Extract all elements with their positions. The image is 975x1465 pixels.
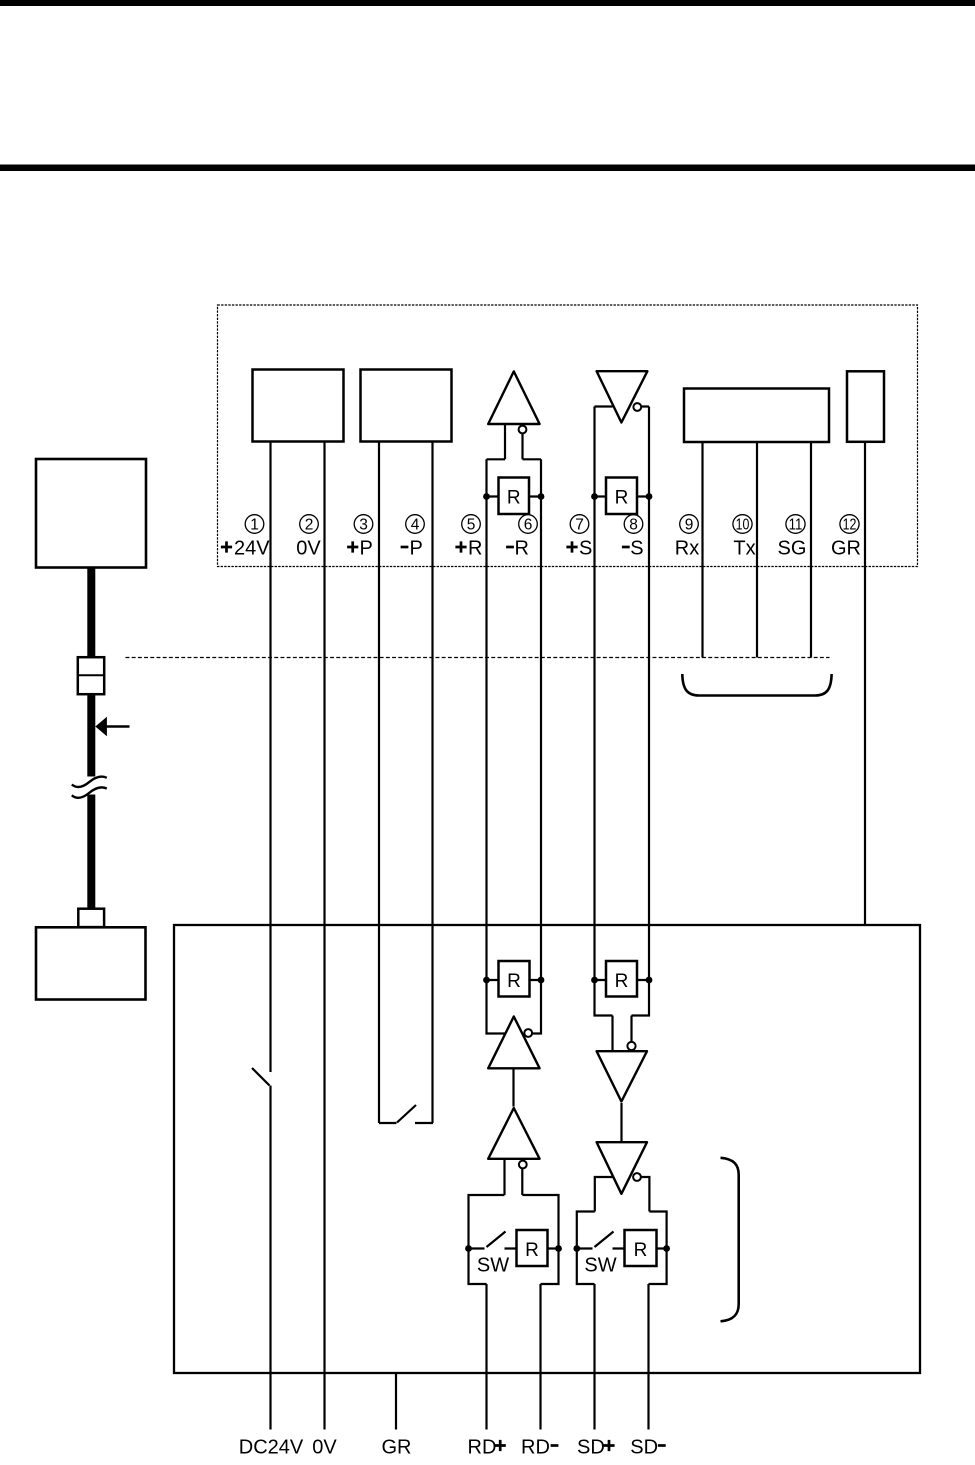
cable break squiggle xyxy=(72,777,107,787)
wire pin6 -R xyxy=(532,459,542,1033)
svg-text:1: 1 xyxy=(250,517,259,534)
svg-text:SG: SG xyxy=(778,538,807,560)
wire pin12 GR xyxy=(864,442,866,925)
svg-text:5: 5 xyxy=(467,517,476,534)
connections from driver 2 into SW network xyxy=(595,1177,650,1212)
svg-text:Tx: Tx xyxy=(733,538,755,560)
terminating resistor wire (lower R channel) xyxy=(487,979,542,981)
GR lead at I/O unit bottom xyxy=(395,1373,397,1430)
cable segment 3 xyxy=(87,795,95,910)
bubble on line driver 2 xyxy=(633,1173,641,1181)
wire between buffer 1 and buffer 2 (R channel) xyxy=(512,1070,514,1107)
wire pin2 0V xyxy=(323,442,325,1430)
wire pin10 Tx xyxy=(756,442,758,658)
cable connector xyxy=(78,657,104,694)
junction dots upper S channel xyxy=(591,493,598,500)
wire pin9 Rx xyxy=(701,442,703,658)
SW resistor box (R channel) xyxy=(517,1230,548,1266)
pin label +R xyxy=(455,538,482,560)
pin number 6 xyxy=(519,515,538,534)
cable segment 1 xyxy=(87,568,95,658)
junction dots lower R channel xyxy=(483,977,490,984)
pin label +P xyxy=(347,538,373,560)
RD- lead xyxy=(539,1284,541,1430)
junction dots upper R channel xyxy=(483,493,490,500)
terminating resistor R box (upper S channel) xyxy=(606,478,637,515)
junction dots SW network (S channel) xyxy=(573,1245,580,1252)
receiver buffer (upper, +R/-R) xyxy=(488,371,539,424)
svg-text:9: 9 xyxy=(685,517,694,534)
wire pin8 -S xyxy=(632,407,650,1043)
lower cable connector xyxy=(78,909,104,927)
wire pin11 SG xyxy=(810,442,812,658)
svg-text:0V: 0V xyxy=(312,1436,337,1458)
grouping bracket (I/O unit right) xyxy=(721,1158,739,1322)
terminating resistor R box (lower S channel) xyxy=(606,961,637,997)
wire pin3 +P xyxy=(379,442,397,1124)
bubble of line driver xyxy=(633,403,641,411)
pin number 5 xyxy=(462,515,481,534)
SW resistor box (S channel) xyxy=(625,1230,657,1266)
terminal label RD+ xyxy=(468,1436,506,1458)
SD+ lead xyxy=(593,1284,595,1430)
external device box (upper) xyxy=(36,459,146,568)
svg-text:Rx: Rx xyxy=(675,538,699,560)
SD- lead xyxy=(647,1284,649,1430)
pin number 12 xyxy=(840,515,859,534)
switch between +P and -P xyxy=(397,1105,416,1123)
svg-text:12: 12 xyxy=(843,516,857,533)
svg-text:R: R xyxy=(507,971,521,992)
svg-text:DC24V: DC24V xyxy=(239,1436,304,1458)
pin number 8 xyxy=(624,515,643,534)
line driver (upper, +S/-S) xyxy=(597,371,648,422)
terminating resistor R (upper R channel) wire xyxy=(487,495,542,497)
pin number 11 xyxy=(786,515,805,534)
SW switch (R channel) xyxy=(469,1232,559,1249)
stems under receiver buffer xyxy=(487,424,542,459)
wire pin5 +R xyxy=(487,459,505,1033)
bubble on receiver buffer 2 xyxy=(519,1161,527,1169)
bubble on receiver buffer 1 xyxy=(524,1029,532,1037)
dashed signal-ground line xyxy=(126,657,830,659)
svg-text:S: S xyxy=(579,538,592,560)
header rule top xyxy=(0,0,975,6)
svg-text:SW: SW xyxy=(477,1255,509,1277)
header rule bottom xyxy=(0,165,975,172)
wire pin1 +24V xyxy=(269,442,271,1073)
pin number 1 xyxy=(245,515,264,534)
svg-text:S: S xyxy=(630,538,643,560)
arrow pointing to cable xyxy=(106,725,130,728)
SW network outer box (S channel) xyxy=(577,1212,667,1285)
pin label +S xyxy=(566,538,592,560)
module box pins 3-4 xyxy=(361,370,452,442)
svg-text:RD: RD xyxy=(468,1436,497,1458)
pin number 4 xyxy=(406,515,425,534)
svg-text:SD: SD xyxy=(630,1436,658,1458)
svg-text:7: 7 xyxy=(575,517,584,534)
svg-text:R: R xyxy=(634,1240,648,1261)
terminating resistor R box (upper R channel) xyxy=(499,478,530,515)
svg-text:P: P xyxy=(410,538,423,560)
terminal label SD- xyxy=(630,1436,665,1458)
RD+ lead xyxy=(485,1284,487,1430)
pin label -P xyxy=(401,538,423,560)
svg-text:R: R xyxy=(525,1240,539,1261)
pin label -R xyxy=(506,538,529,560)
wire between driver 1 and driver 2 (S channel) xyxy=(620,1103,622,1141)
line driver 1 (I/O unit, S channel) xyxy=(597,1051,647,1101)
svg-text:R: R xyxy=(615,488,629,509)
pin number 10 xyxy=(733,515,752,534)
wire pin4 -P xyxy=(415,442,433,1124)
terminal label RD- xyxy=(521,1436,558,1458)
svg-text:RD: RD xyxy=(521,1436,550,1458)
svg-text:0V: 0V xyxy=(296,538,321,560)
wire pin7 +S xyxy=(595,407,613,1052)
svg-text:10: 10 xyxy=(736,516,750,533)
interface IC box pins 9-11 xyxy=(684,389,829,443)
terminating resistor wire (lower S channel) xyxy=(595,979,650,981)
pin label -S xyxy=(622,538,644,560)
svg-text:4: 4 xyxy=(411,517,420,534)
module box pins 1-2 xyxy=(253,370,344,442)
frame ground box pin 12 xyxy=(847,371,884,442)
pin number 9 xyxy=(680,515,699,534)
svg-text:R: R xyxy=(468,538,482,560)
svg-text:6: 6 xyxy=(524,517,533,534)
line driver 2 (I/O unit, S channel) xyxy=(597,1142,647,1194)
svg-text:GR: GR xyxy=(831,538,861,560)
cable segment 2 xyxy=(87,694,95,777)
SW switch (S channel) xyxy=(577,1232,667,1249)
driver input connections xyxy=(595,405,650,407)
svg-text:24V: 24V xyxy=(234,538,270,560)
terminating resistor R (upper S channel) wire xyxy=(595,495,650,497)
svg-text:R: R xyxy=(615,971,629,992)
svg-text:3: 3 xyxy=(359,517,368,534)
svg-text:8: 8 xyxy=(629,517,638,534)
pin number 3 xyxy=(354,515,373,534)
Rx/Tx/SG grouping bracket xyxy=(682,674,831,696)
receiver buffer 2 (I/O unit, R channel) xyxy=(488,1108,539,1159)
pin number 7 xyxy=(570,515,589,534)
terminating resistor R box (lower R channel) xyxy=(499,961,530,997)
svg-text:11: 11 xyxy=(789,516,803,533)
dashed enclosure (control unit side) xyxy=(218,305,918,567)
svg-text:R: R xyxy=(507,488,521,509)
bubble on line driver 1 xyxy=(627,1042,635,1050)
pin label +24V xyxy=(221,538,270,560)
junction dots SW network (R channel) xyxy=(465,1245,472,1252)
svg-text:SD: SD xyxy=(577,1436,605,1458)
terminal label SD+ xyxy=(577,1436,615,1458)
switch on +24V wire xyxy=(252,1068,271,1430)
SW network outer box (R channel) xyxy=(469,1195,559,1284)
junction dots lower S channel xyxy=(591,977,598,984)
external device box (lower) xyxy=(36,927,146,999)
I/O unit box xyxy=(174,925,920,1373)
receiver buffer 1 (I/O unit, R channel) xyxy=(488,1017,539,1069)
svg-text:SW: SW xyxy=(584,1255,616,1277)
svg-text:P: P xyxy=(360,538,373,560)
stems from buffer 2 into SW network xyxy=(505,1160,523,1195)
svg-text:R: R xyxy=(515,538,529,560)
pin number 2 xyxy=(300,515,319,534)
bubble of receiver buffer xyxy=(519,426,527,434)
svg-text:2: 2 xyxy=(305,517,314,534)
svg-text:GR: GR xyxy=(382,1436,412,1458)
